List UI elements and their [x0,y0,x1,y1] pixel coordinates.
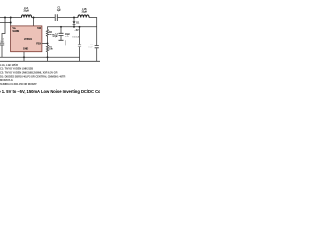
node: D1 junction top [73,17,75,19]
svg-text:FBX: FBX [36,42,41,45]
node: SW junction [33,17,35,19]
wire: top rail L1A to C1 [32,17,55,19]
svg-text:1µF: 1µF [57,9,62,12]
wire: C2 bottom to ground line [96,48,98,61]
node: chip VIN pin junction [10,17,12,19]
svg-text:e 1. 5V to –5V, 150mA Low Nois: e 1. 5V to –5V, 150mA Low Noise Invertin… [0,89,100,94]
wire: VOUT rail [48,27,97,30]
node: VIN input junction [4,17,6,19]
ground symbol C3 [59,39,64,41]
svg-text:1µF: 1µF [0,41,4,43]
svg-text:D1: D1 [76,22,80,25]
resistor R2 [46,29,48,43]
diode D1 [73,18,75,22]
inductor L1A [22,15,32,18]
node: D1 junction bottom [73,26,75,28]
svg-text:LT8331: LT8331 [24,37,33,41]
node: C3 junction [60,26,62,28]
node: SHDN junction [10,22,12,24]
capacitor C4 [79,27,81,58]
svg-text:D1: DIODES SBR1U40LP3 OR CENTR: D1: DIODES SBR1U40LP3 OR CENTRAL CMMSH1-… [0,74,66,78]
IC U1 LT8331 body [11,26,42,52]
node: C4 junction [79,26,81,28]
svg-text:GND: GND [23,48,29,51]
wire: stray vertical mark [64,40,66,45]
svg-text:33µH: 33µH [82,11,88,14]
node: FBX junction [47,42,49,44]
capacitor C1 [55,14,57,21]
wire: top rail L1B to right corner, down right side [89,18,97,46]
svg-text:33µH: 33µH [23,9,29,12]
wire: chip VIN pin [10,18,12,27]
wire: chip GND pin [23,52,25,62]
node: R1 ground junction [47,56,49,58]
svg-text:C1: TAIYO YUDEN LMK212B: C1: TAIYO YUDEN LMK212B [0,67,33,71]
inductor L1B [78,15,89,18]
capacitor C3 [60,27,62,33]
wire: input cap to ground rail [1,45,3,57]
footnote component list [0,62,66,86]
wire: SHDN tie to VIN pin [0,22,11,24]
svg-text:10k: 10k [49,49,53,51]
capacitor CIN [0,43,4,45]
svg-text:SUMIDA CLS60-150 OR MURAT: SUMIDA CLS60-150 OR MURAT [0,82,37,86]
wire: top rail C1 to L1B [58,17,78,19]
svg-text:10µF: 10µF [88,46,94,48]
node: GND junction [23,56,25,58]
wire: input cap branch [2,18,5,43]
svg-text:X5R: X5R [65,36,70,38]
svg-text:L1A, L1B: WÜR: L1A, L1B: WÜR [0,62,18,67]
svg-text:−5V: −5V [74,29,79,32]
svg-text:150mA: 150mA [72,36,79,39]
capacitor C2 output [95,46,99,48]
svg-text:4.7µF: 4.7µF [52,35,58,38]
wire: VIN top rail left segment [0,17,22,19]
svg-text:SHDN: SHDN [12,30,19,33]
wire: chip SW pin [33,18,35,27]
wire: bottom ground bus [0,60,100,62]
wire: ground rail [0,57,80,61]
wire: FBX pin [42,42,48,44]
resistor R1 [46,43,48,61]
svg-text:C2: TAIYO YUDEN JMK316BJ106ML: C2: TAIYO YUDEN JMK316BJ106ML X5R 6.3V G… [0,71,58,75]
svg-text:MURATA G: MURATA G [0,78,13,82]
